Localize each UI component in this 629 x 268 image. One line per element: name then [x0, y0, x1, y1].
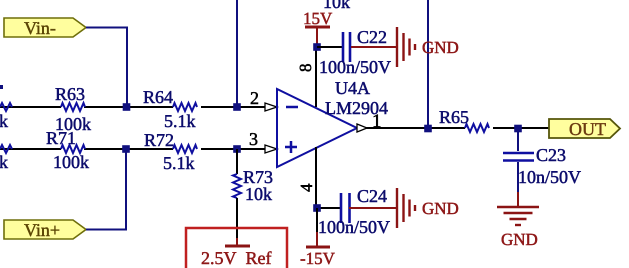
annotation box (red highlight around 2.5V Ref) [186, 228, 287, 268]
wire R73 bottom lead [236, 198, 238, 238]
resistor (partial, left edge, row1) [0, 103, 12, 111]
op-amp plus sign [285, 141, 297, 153]
svg-text:R71: R71 [46, 128, 76, 148]
svg-text:Vin+: Vin+ [24, 220, 60, 240]
svg-text:R72: R72 [144, 130, 174, 150]
wire output to R65 [366, 127, 465, 129]
wire R65 to OUT [493, 127, 549, 129]
port Vin+ [4, 220, 86, 240]
svg-text:R63: R63 [55, 84, 85, 104]
resistor R65 [465, 124, 489, 132]
power port -15V [300, 208, 336, 268]
wire feedback left vertical [236, 0, 238, 107]
svg-text:15V: 15V [303, 9, 333, 28]
svg-text:R64: R64 [143, 87, 173, 107]
node row1/feedback junction [233, 103, 241, 111]
node row1/Vin- junction [123, 103, 131, 111]
resistor R72 [173, 145, 197, 153]
wire R73 top lead [236, 149, 238, 174]
wire junction to C22 [317, 46, 342, 48]
svg-text:R65: R65 [439, 107, 469, 127]
wire junction to C24 [317, 207, 340, 209]
pin 1 output arrowhead [357, 124, 367, 132]
resistor R73 [233, 174, 241, 198]
svg-text:GND: GND [501, 230, 538, 249]
resistor R71 [61, 145, 85, 153]
resistor (partial, left edge, row2) [0, 145, 12, 153]
port Vin- [4, 18, 86, 38]
capacitor C24 [341, 193, 350, 223]
node row2/Vin+ junction [122, 145, 130, 153]
svg-text:U4A: U4A [335, 78, 370, 98]
svg-text:GND: GND [422, 38, 459, 57]
pin 8 wire (V+) [315, 47, 317, 107]
svg-text:2: 2 [250, 88, 259, 108]
wire C23 bottom lead [517, 162, 519, 192]
resistor R63 [61, 103, 85, 111]
svg-text:5.1k: 5.1k [163, 153, 195, 173]
svg-text:10k: 10k [245, 184, 272, 204]
svg-text:100n/50V: 100n/50V [318, 217, 390, 237]
svg-text:3: 3 [249, 129, 258, 149]
svg-text:C23: C23 [536, 145, 566, 165]
wire row1 (inverting input net) [0, 106, 265, 108]
ground GND (right of C24, rotated) [349, 188, 415, 228]
wire feedback right vertical [427, 0, 429, 129]
capacitor C22 [343, 32, 350, 62]
svg-text:C24: C24 [357, 186, 387, 206]
pin 2 arrowhead [265, 103, 277, 111]
wire Vin- to row1 node [86, 28, 127, 108]
svg-text:2.5V Ref: 2.5V Ref [201, 248, 272, 268]
svg-text:k: k [0, 111, 8, 131]
op-amp minus sign [286, 106, 298, 109]
node pin4/C24 junction [313, 204, 321, 212]
power port 2.5V Ref [201, 238, 272, 268]
svg-text:100n/50V: 100n/50V [319, 57, 391, 77]
svg-text:4: 4 [297, 183, 316, 192]
port OUT [549, 119, 620, 139]
svg-text:5.1k: 5.1k [164, 111, 196, 131]
op-amp U4A triangle [277, 89, 357, 167]
capacitor C23 [503, 153, 534, 161]
node R65/C23 junction [514, 125, 522, 133]
svg-text:8: 8 [296, 64, 315, 73]
ground GND (below C23) [497, 192, 539, 225]
svg-text:Vin-: Vin- [24, 18, 56, 38]
resistor R64 [173, 103, 197, 111]
power port 15V [303, 9, 333, 47]
svg-text:OUT: OUT [569, 119, 606, 139]
ground GND (right of C22, rotated) [351, 27, 415, 67]
node output/feedback junction [424, 125, 432, 133]
pin 3 arrowhead [265, 145, 277, 153]
wire C23 top lead [517, 128, 519, 151]
svg-text:C22: C22 [357, 27, 387, 47]
text fragment at left edge [0, 85, 3, 89]
node row2/R73 junction [233, 145, 241, 153]
svg-text:-15V: -15V [300, 249, 336, 268]
svg-text:k: k [0, 152, 8, 172]
node pin8/C22 junction [313, 43, 321, 51]
wire row2 (non-inverting input net) [0, 148, 265, 150]
svg-text:10n/50V: 10n/50V [518, 167, 581, 187]
wire Vin+ to row2 node [86, 149, 126, 230]
svg-text:100k: 100k [53, 152, 89, 172]
svg-text:GND: GND [422, 199, 459, 218]
pin 4 wire (V-) [315, 147, 317, 208]
